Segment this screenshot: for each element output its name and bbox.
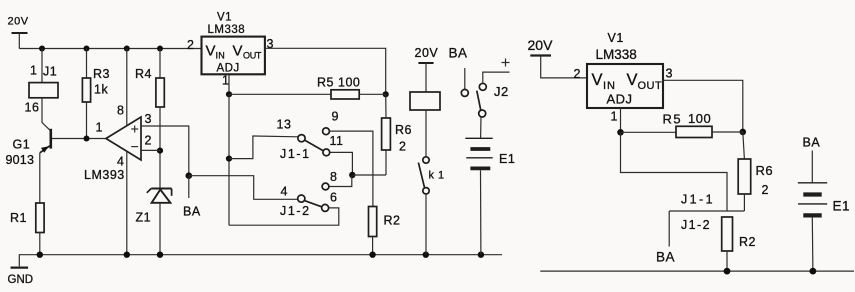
svg-text:J1: J1 (43, 65, 57, 79)
resistor R1 (10, 203, 44, 233)
relay contact J2 (461, 83, 508, 117)
wire R1 to ground bus (39, 233, 41, 255)
power +20V (right) (528, 37, 554, 56)
resistor R6 (left) (382, 94, 412, 175)
svg-text:3: 3 (666, 67, 673, 81)
svg-text:J1-2: J1-2 (681, 218, 711, 232)
svg-text:8: 8 (117, 104, 124, 118)
svg-text:6: 6 (330, 191, 337, 205)
node bus R2 (369, 252, 375, 258)
svg-text:BA: BA (183, 205, 201, 219)
wire emitter to R1 (39, 153, 41, 203)
svg-text:OUT: OUT (243, 51, 262, 61)
transistor Q1 G1 9013 (6, 129, 51, 167)
node top rail R4 (157, 46, 163, 52)
node bus R1 (37, 252, 43, 258)
svg-text:100: 100 (688, 111, 711, 126)
svg-text:2: 2 (399, 140, 406, 154)
svg-text:1: 1 (611, 110, 618, 124)
svg-text:R5: R5 (663, 112, 683, 127)
wire ADJ to R2 top (621, 132, 728, 211)
wire op-amp pin 4 to ground bus (126, 151, 128, 254)
node 11 8 R6 (349, 172, 355, 178)
wire R6 bottom row (669, 210, 744, 212)
wire rail to relay coil J1 (41, 49, 43, 83)
svg-text:GND: GND (8, 274, 34, 286)
svg-text:20V: 20V (415, 46, 439, 60)
resistor R5 100 (left) (229, 76, 386, 100)
svg-text:G1: G1 (13, 138, 31, 152)
svg-text:R5: R5 (317, 76, 334, 90)
wire J2 to + stub (483, 72, 510, 83)
relay contact J1-2 (280, 170, 337, 218)
node bus E1 right (810, 268, 817, 275)
svg-text:R1: R1 (10, 211, 27, 225)
svg-text:R2: R2 (384, 214, 401, 228)
node VOUT R5 (383, 91, 389, 97)
wire contact 9 to R2 (329, 131, 373, 206)
svg-text:20V: 20V (528, 37, 554, 53)
relay coil J2 (410, 92, 440, 110)
svg-text:2: 2 (762, 183, 769, 197)
net BA stub (left) (183, 176, 201, 219)
ground bus (right) (540, 270, 854, 272)
switch k1 (418, 157, 444, 194)
svg-text:J1-1: J1-1 (681, 193, 715, 207)
svg-text:J1-1: J1-1 (280, 147, 311, 161)
node bus pin4 (124, 252, 130, 258)
svg-text:IN: IN (603, 80, 616, 92)
svg-text:8: 8 (330, 170, 337, 184)
wire rail to op-amp pin 8 (126, 49, 128, 126)
ground symbol (8, 268, 34, 286)
node R4 pin2 (157, 148, 163, 154)
svg-text:k 1: k 1 (429, 170, 445, 182)
wire ADJ pin1 down (228, 74, 230, 94)
svg-text:11: 11 (330, 134, 344, 148)
svg-text:BA: BA (656, 250, 675, 265)
wire E1 to ground bus (480, 170, 482, 254)
resistor R6 (right) (738, 132, 773, 211)
wire base: op-amp output to transistor (52, 138, 106, 140)
ground bus (left) (19, 255, 502, 267)
svg-text:OUT: OUT (638, 80, 663, 92)
wire ADJ down (620, 108, 622, 132)
regulator V1 LM338 (right) (587, 31, 663, 108)
svg-text:R2: R2 (739, 235, 756, 249)
svg-text:LM338: LM338 (208, 24, 246, 36)
node bus E1 (478, 252, 484, 258)
wire J2 common to E1 (480, 117, 482, 138)
wire 20V to VIN (541, 56, 587, 78)
svg-text:LM393: LM393 (84, 168, 125, 182)
wire contact 8 up (329, 176, 352, 187)
svg-text:R4: R4 (135, 67, 152, 81)
wire k1 to ground bus (425, 194, 427, 255)
svg-text:E1: E1 (499, 152, 515, 166)
wire J1 to transistor collector (42, 98, 51, 131)
svg-text:Z1: Z1 (136, 211, 152, 225)
wire op-amp pin 3 right (141, 126, 189, 176)
wire 20V to top rail (18, 33, 20, 49)
svg-text:100: 100 (338, 76, 360, 90)
svg-text:9: 9 (332, 110, 339, 124)
svg-text:BA: BA (803, 136, 821, 150)
svg-text:3: 3 (145, 112, 152, 126)
resistor R3 1k (82, 49, 110, 139)
net BA stub (right upper) (803, 136, 821, 183)
svg-text:BA: BA (449, 46, 468, 61)
svg-text:R3: R3 (93, 67, 110, 81)
wire 20V to J2 coil (425, 63, 427, 92)
wire node to R6 bottom (352, 174, 386, 176)
svg-text:R6: R6 (395, 123, 412, 137)
svg-text:3: 3 (267, 37, 274, 51)
svg-text:9013: 9013 (6, 153, 35, 167)
svg-text:4: 4 (117, 155, 124, 169)
resistor R4 (135, 49, 164, 188)
relay contact J1-1 (277, 110, 344, 162)
svg-text:V: V (206, 43, 217, 60)
wire contact 11 down (330, 152, 353, 175)
svg-text:2: 2 (187, 38, 194, 52)
wire ADJ bottom to contact 6 (229, 208, 339, 225)
svg-text:J1-2: J1-2 (280, 204, 311, 218)
svg-text:V: V (233, 43, 244, 60)
svg-text:R6: R6 (756, 163, 774, 178)
wire pin3 to contact 4 (189, 176, 298, 200)
svg-text:IN: IN (216, 51, 226, 61)
regulator U1 LM338 (left) (202, 12, 265, 75)
svg-text:V1: V1 (217, 12, 232, 24)
wire VOUT pin3 to R6 column (265, 48, 386, 94)
node top rail pin8 (124, 46, 130, 52)
node ADJ J1-1 branch (226, 156, 232, 162)
wire J2 coil to k1 (425, 110, 427, 157)
svg-text:2: 2 (574, 67, 581, 81)
power +20V (middle) (415, 46, 439, 63)
node ADJ right (617, 129, 624, 136)
wire ADJ vertical (228, 94, 230, 225)
svg-text:LM338: LM338 (596, 47, 637, 62)
wire ADJ to contact 13 (229, 136, 298, 159)
battery E1 (left) (465, 138, 515, 168)
wire Z1 to ground bus (159, 203, 161, 255)
svg-text:20V: 20V (8, 16, 29, 28)
node R5 right (740, 129, 747, 136)
svg-text:1k: 1k (94, 83, 108, 97)
svg-text:16: 16 (25, 101, 40, 115)
node bus Z1 (157, 252, 163, 258)
battery E1 (right) (798, 183, 850, 216)
node + label (502, 59, 510, 67)
node top rail J1 (39, 46, 45, 52)
node bus k1 (423, 252, 429, 258)
wire top rail (19, 48, 201, 50)
node top rail R3 (84, 46, 90, 52)
node pin3 BA (186, 172, 193, 179)
svg-text:4: 4 (281, 185, 288, 199)
svg-text:V: V (592, 71, 603, 89)
wire E1 to bus (right) (811, 218, 814, 272)
net BA stub (battery top) (449, 46, 468, 90)
op-amp U2 LM393 (84, 104, 152, 183)
node ADJ (226, 91, 232, 97)
svg-text:13: 13 (277, 118, 292, 132)
node bus R2 right (724, 268, 731, 275)
svg-text:2: 2 (145, 134, 152, 148)
svg-text:E1: E1 (833, 199, 851, 214)
resistor R5 100 (right) (621, 111, 743, 138)
wire op-amp pin 2 to R4 (141, 149, 160, 151)
resistor R2 (left) (369, 207, 401, 255)
svg-text:1: 1 (96, 121, 103, 135)
net BA stub (right lower) (656, 211, 675, 265)
relay coil J1 (29, 65, 58, 98)
resistor R2 (right) (722, 217, 756, 271)
power +20V (left) (8, 16, 29, 34)
svg-text:V1: V1 (608, 31, 624, 45)
zener Z1 (136, 189, 172, 225)
svg-text:V: V (627, 71, 638, 89)
svg-text:J2: J2 (494, 84, 509, 99)
svg-text:1: 1 (222, 74, 229, 88)
svg-text:1: 1 (30, 64, 37, 78)
node base R3 (84, 136, 90, 142)
svg-text:ADJ: ADJ (607, 92, 633, 107)
wire VOUT to R5 node (663, 80, 743, 132)
